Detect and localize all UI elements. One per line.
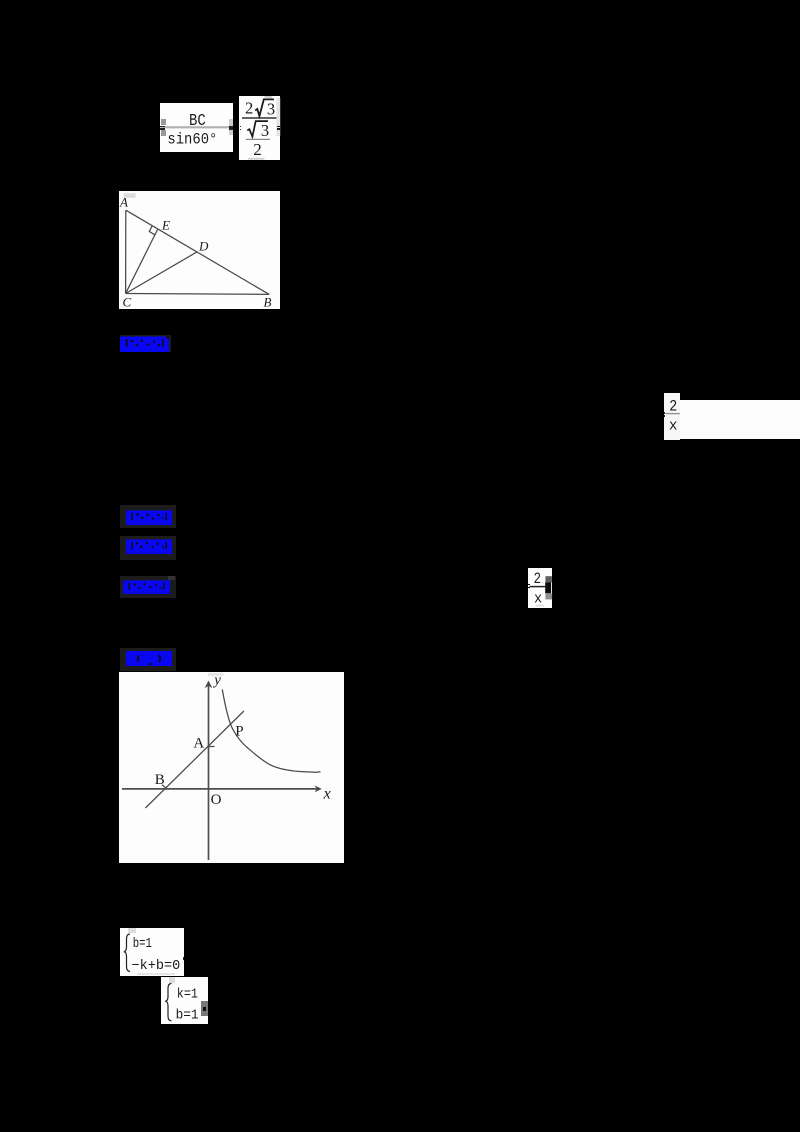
svg-text:k=1: k=1 [177, 986, 198, 1002]
svg-text:b=1: b=1 [175, 1007, 198, 1023]
x axis [122, 787, 318, 789]
svg-text:3: 3 [260, 121, 268, 140]
cevian CD [126, 252, 197, 294]
svg-text:B: B [155, 771, 165, 787]
svg-text:sin60°: sin60° [167, 131, 217, 149]
y axis [208, 684, 210, 860]
tick at A [208, 745, 215, 747]
svg-text:A: A [119, 195, 128, 210]
svg-text:P: P [236, 723, 244, 739]
svg-text:2: 2 [534, 570, 541, 588]
blue label 5 [120, 648, 176, 671]
line through B, A, P [146, 711, 245, 808]
svg-text:O: O [211, 792, 222, 808]
svg-text:x: x [669, 418, 678, 435]
cevian CE [126, 229, 158, 294]
triangle figure ABC with cevians CE (perpendicular) and CD [119, 191, 279, 309]
svg-text:x: x [323, 785, 331, 802]
svg-text:B: B [264, 295, 272, 309]
hyperbola branch [223, 689, 321, 772]
tick at B [162, 784, 166, 787]
svg-text:A: A [194, 735, 205, 751]
blue label 2 [120, 505, 176, 528]
svg-text:D: D [198, 238, 209, 253]
equation system 1: {b=1, -k+b=0 [120, 928, 184, 976]
formula F2: 2sqrt3 over sqrt3/2 [239, 96, 280, 160]
blue label 1 [120, 335, 171, 353]
y axis arrowhead [205, 680, 213, 688]
side AB [126, 210, 269, 294]
equation system 2: {k=1, b=1 [161, 977, 208, 1024]
formula F1: = BC/sin60 deg = [160, 103, 233, 152]
svg-text:b=1: b=1 [133, 936, 152, 952]
side CB [126, 293, 270, 296]
blue label 3 [120, 536, 176, 560]
fraction 2/x (right margin) [664, 393, 680, 440]
svg-text:2: 2 [245, 98, 253, 117]
blue label 4 [120, 576, 176, 598]
svg-text:2: 2 [669, 398, 677, 416]
svg-text:2: 2 [253, 140, 262, 159]
svg-text:C: C [123, 295, 132, 309]
svg-text:E: E [161, 218, 170, 233]
svg-text:3: 3 [266, 100, 274, 119]
side AC [125, 210, 127, 293]
svg-text:−k+b=0: −k+b=0 [132, 958, 181, 974]
fraction 2/x (mid) with gray fragment [528, 568, 552, 609]
x axis arrowhead [315, 785, 322, 792]
graph figure: hyperbola and line y=kx+b [119, 672, 343, 863]
right angle mark at E [150, 226, 156, 235]
svg-text:y: y [213, 672, 222, 688]
